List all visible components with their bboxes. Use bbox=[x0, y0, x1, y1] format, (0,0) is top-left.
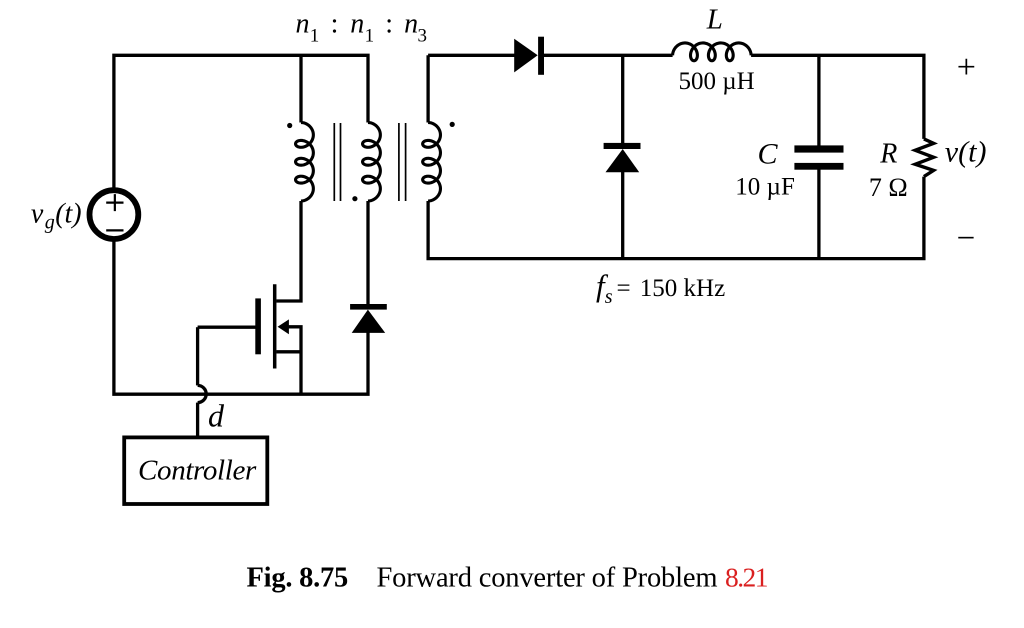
svg-text:s: s bbox=[605, 286, 613, 308]
winding 2 (reset n1) bbox=[363, 123, 381, 202]
resistor R zigzag bbox=[915, 139, 933, 177]
svg-text:Controller: Controller bbox=[138, 455, 257, 487]
wire: MOSFET source stub bbox=[276, 350, 301, 353]
series diode D2 bar bbox=[538, 37, 544, 75]
svg-text:C: C bbox=[758, 138, 779, 171]
svg-text:v: v bbox=[31, 198, 44, 229]
svg-text:d: d bbox=[208, 397, 225, 433]
reset diode D1 triangle bbox=[352, 310, 386, 333]
wire: winding1 top stub bbox=[299, 55, 302, 122]
svg-text:8.21: 8.21 bbox=[725, 562, 768, 593]
MOSFET gate bar bbox=[255, 298, 261, 354]
svg-text:7 Ω: 7 Ω bbox=[869, 173, 908, 202]
dot winding 3 bbox=[450, 122, 455, 127]
svg-text:Fig. 8.75: Fig. 8.75 bbox=[247, 563, 348, 594]
svg-text:(t): (t) bbox=[55, 198, 81, 229]
svg-text:=: = bbox=[617, 275, 631, 302]
reset diode D1 bar bbox=[350, 304, 387, 310]
wire: vg bottom + primary bottom rail + reset diode bottom stub bbox=[114, 239, 368, 395]
vg minus sign bbox=[106, 229, 123, 231]
MOSFET body arrow bbox=[278, 319, 289, 334]
wire: series diode bar to inductor L bbox=[544, 54, 673, 57]
svg-text:500 µH: 500 µH bbox=[679, 68, 755, 95]
wire: vg top + primary top rail + winding2 top stub bbox=[114, 55, 368, 190]
dot winding 1 bbox=[287, 123, 292, 128]
wire: freewheeling diode top stub bbox=[621, 55, 624, 144]
wire: MOSFET source vertical + arrow line bbox=[289, 327, 301, 394]
svg-text:n: n bbox=[350, 8, 364, 39]
svg-text:−: − bbox=[957, 221, 976, 257]
svg-text:L: L bbox=[706, 3, 723, 35]
wire: freewheeling diode bottom stub bbox=[621, 172, 624, 259]
vg plus sign bbox=[106, 194, 123, 211]
wire: hop to controller bbox=[196, 403, 199, 436]
wire: winding3 bottom + secondary bottom rail + right rail up to resistor bbox=[428, 177, 924, 259]
freewheeling diode D3 bar bbox=[604, 143, 641, 149]
wire: gate drop above hop bbox=[196, 327, 199, 385]
svg-text:1: 1 bbox=[310, 26, 320, 47]
svg-text:1: 1 bbox=[365, 26, 375, 47]
wire hop over primary bottom rail bbox=[198, 385, 207, 402]
svg-text:3: 3 bbox=[418, 26, 428, 47]
svg-text:10 µF: 10 µF bbox=[735, 174, 795, 201]
svg-text::: : bbox=[331, 8, 339, 39]
wire: winding1 bottom to MOSFET drain bbox=[276, 201, 301, 301]
dot winding 2 bbox=[352, 196, 357, 201]
svg-text:Forward converter of Problem: Forward converter of Problem bbox=[377, 563, 718, 594]
svg-text::: : bbox=[385, 8, 393, 39]
core lines pair 1 bbox=[334, 123, 340, 201]
controller box bbox=[124, 437, 267, 504]
freewheeling diode D3 triangle bbox=[606, 149, 640, 172]
wire: secondary left top stub (winding3 top) bbox=[426, 55, 429, 122]
wire: top rail winding3 to series diode bbox=[428, 54, 514, 57]
wire: winding2 bottom to reset diode bbox=[366, 201, 369, 305]
wire: gate lead bbox=[198, 326, 256, 329]
wire: capacitor bottom stub bbox=[817, 169, 820, 259]
series diode D2 triangle bbox=[514, 39, 538, 73]
MOSFET channel bar bbox=[273, 284, 277, 368]
capacitor C bottom plate bbox=[794, 163, 843, 170]
svg-text:n: n bbox=[296, 8, 310, 39]
svg-text:v(t): v(t) bbox=[945, 135, 987, 168]
svg-text:+: + bbox=[957, 49, 976, 86]
voltage source vg circle bbox=[90, 190, 139, 239]
svg-text:g: g bbox=[45, 212, 55, 234]
svg-text:150 kHz: 150 kHz bbox=[640, 275, 725, 302]
winding 3 (secondary n3) bbox=[423, 123, 441, 202]
capacitor C top plate bbox=[794, 145, 843, 152]
inductor L coil bbox=[673, 43, 752, 61]
wire: capacitor top stub bbox=[817, 55, 820, 146]
wire: inductor L to top-right corner + down to resistor bbox=[751, 55, 924, 139]
winding 1 (primary n1) bbox=[296, 123, 314, 202]
svg-text:n: n bbox=[404, 8, 418, 39]
svg-text:R: R bbox=[879, 139, 897, 170]
core lines pair 2 bbox=[399, 123, 406, 201]
